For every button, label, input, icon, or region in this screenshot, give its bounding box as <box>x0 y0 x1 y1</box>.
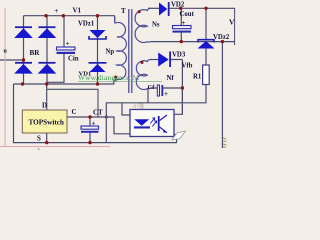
wire C pin <box>67 117 142 134</box>
wire Cout lower <box>180 33 182 42</box>
wire top bus V1 <box>24 15 115 17</box>
optocoupler box <box>130 110 174 137</box>
wire Vfb drop <box>181 88 183 115</box>
bridge BR diode bottom-left <box>14 62 33 74</box>
wire clamp column <box>97 16 99 84</box>
zener VDz2 <box>198 40 215 49</box>
svg-text:VD2: VD2 <box>171 1 185 8</box>
wire output bus <box>170 7 236 9</box>
wire S pin <box>46 133 48 143</box>
cursor arrow <box>172 131 186 140</box>
polarity dot Ns <box>138 10 141 13</box>
svg-text:Cin: Cin <box>68 56 79 63</box>
wire primary top lead <box>114 16 116 22</box>
capacitor Cin <box>57 47 76 54</box>
svg-text:+: + <box>92 120 96 128</box>
polarity dot Nf <box>141 61 144 64</box>
wire bridge left column <box>23 16 25 84</box>
svg-text:C: C <box>72 108 77 116</box>
svg-text:Ns: Ns <box>152 22 160 29</box>
pink border artifacts <box>0 8 110 147</box>
watermark bottom right smudge <box>223 138 227 147</box>
wire D pin <box>46 84 48 110</box>
wire opto LED anode <box>122 103 139 120</box>
svg-text:CT: CT <box>93 109 103 117</box>
diode VD1 <box>89 62 107 72</box>
wire Ns top to VD2 <box>148 7 159 9</box>
capacitor Cf <box>157 85 163 96</box>
zener VDz1 <box>89 30 106 39</box>
wire left return drop <box>14 84 178 143</box>
svg-text:+: + <box>164 90 168 98</box>
wire Cf tap <box>147 88 149 103</box>
svg-text:BR: BR <box>30 49 41 57</box>
speck <box>38 148 40 150</box>
svg-text:+: + <box>182 19 186 27</box>
wire Nf bottom to Cf <box>150 87 182 89</box>
svg-text:Nf: Nf <box>167 75 175 82</box>
svg-text:+: + <box>66 40 70 48</box>
wire drain rail <box>14 81 118 84</box>
svg-text:小强: 小强 <box>133 102 145 110</box>
svg-text:Cf: Cf <box>148 84 156 91</box>
wire VDz2 to R1 <box>205 49 207 66</box>
wire CT cap leads <box>89 117 91 143</box>
bridge BR diode bottom-right <box>38 62 57 74</box>
wire Cout riser <box>180 8 182 25</box>
optocoupler LED <box>134 119 150 128</box>
wire VDz2 top lead <box>205 8 207 39</box>
TOPSwitch U1 box <box>22 110 67 133</box>
wire secondary return <box>150 41 235 43</box>
wire Nf top to VD3 <box>150 59 158 61</box>
wire VD3 out <box>171 59 182 61</box>
bridge BR diode top-left <box>14 26 33 38</box>
svg-text:R1: R1 <box>193 74 202 81</box>
svg-text:D: D <box>42 101 47 109</box>
svg-text:VDz1: VDz1 <box>78 21 95 28</box>
wire opto collector <box>167 60 182 116</box>
wire Cin riser <box>63 16 65 47</box>
svg-text:VD3: VD3 <box>172 52 186 59</box>
wire opto emitter <box>167 133 177 143</box>
capacitor Cout <box>173 26 192 33</box>
svg-text:V1: V1 <box>73 7 82 15</box>
secondary winding Ns <box>135 8 151 42</box>
diode VD2 <box>159 2 170 16</box>
svg-text:+: + <box>54 7 58 15</box>
bridge BR diode top-right <box>38 26 57 38</box>
svg-text:Vfb: Vfb <box>182 63 193 70</box>
svg-text:T: T <box>121 7 126 15</box>
svg-text:V: V <box>229 18 235 27</box>
wire right drop <box>221 42 223 148</box>
svg-text:Cout: Cout <box>180 11 195 18</box>
feedback winding Nf <box>136 60 151 90</box>
resistor R1 <box>203 65 210 85</box>
diode VD3 <box>158 52 171 68</box>
wire AC input u upper <box>0 59 24 61</box>
junction dots <box>44 14 47 17</box>
polarity dot Np <box>114 76 117 79</box>
wire bridge right column <box>46 16 48 84</box>
wire Cin lower lead <box>47 54 64 82</box>
wire D to C detour stub <box>47 89 98 116</box>
capacitor CT <box>81 126 99 133</box>
svg-text:VDz2: VDz2 <box>213 34 230 41</box>
transformer core <box>129 9 132 93</box>
wire feedback return long <box>106 85 206 143</box>
optocoupler phototransistor <box>158 115 167 133</box>
svg-text:Www.diangon.aoM: Www.diangon.aoM <box>78 73 139 82</box>
optocoupler light arrows <box>150 118 157 127</box>
primary winding Np <box>114 16 127 84</box>
svg-text:S: S <box>37 135 41 143</box>
svg-text:TOPSwitch: TOPSwitch <box>29 119 64 127</box>
svg-text:Np: Np <box>106 49 115 56</box>
wire output edge drop <box>234 8 236 45</box>
